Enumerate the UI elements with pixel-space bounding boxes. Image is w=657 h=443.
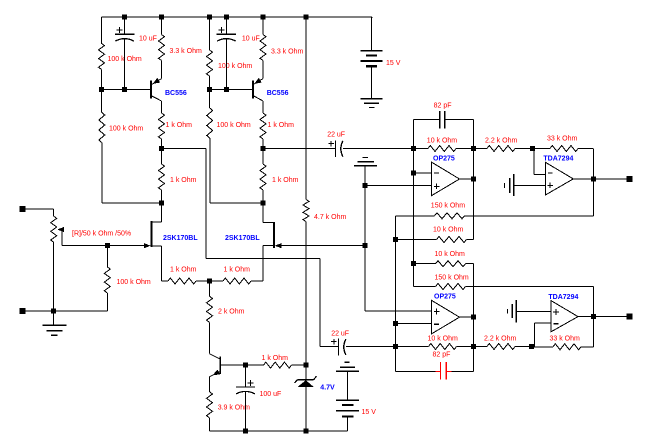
op-amp U4 plus sign (553, 309, 559, 315)
label R16 3.9 k Ohm (218, 405, 250, 412)
svg-text:22 uF: 22 uF (331, 330, 349, 337)
svg-text:82 pF: 82 pF (433, 351, 451, 358)
resistor R28 33k (TDA1 feedback) leads (532, 148, 593, 150)
wire stage1 base row (102, 89, 152, 91)
label R27 2.2 k Ohm (485, 138, 517, 145)
battery V1 15V (361, 51, 383, 67)
svg-text:[R]/50 k Ohm /50%: [R]/50 k Ohm /50% (72, 231, 131, 238)
resistor R5 100k (stage1 base lower) leads (101, 90, 104, 204)
transistor Q3 collector lead (210, 354, 221, 360)
label R17 1 k Ohm (262, 355, 289, 362)
node zener bottom rail junction (303, 429, 308, 434)
resistor R14 1k (J2 source) leads (210, 280, 264, 282)
node U1 minus junction (411, 170, 416, 175)
wire battery V1 bottom lead (371, 66, 373, 98)
transistor J2 2SK170BL channel bar (273, 222, 275, 248)
op-amp U3 plus sign (547, 183, 553, 189)
resistor R17 1k (Q3 base) leads (246, 364, 306, 366)
transistor J1 2SK170BL channel bar (151, 221, 153, 247)
capacitor C5 22uF wire left (320, 346, 339, 348)
wire battery V1 top lead (371, 17, 374, 51)
capacitor C7 82pF loop black leads (396, 370, 474, 372)
svg-text:1 k Ohm: 1 k Ohm (268, 122, 295, 129)
node stage2 feedback junction (261, 201, 266, 206)
wire J2 gate row (281, 245, 365, 247)
node ground rail junction (51, 308, 56, 313)
node stage1 output junction (159, 146, 164, 151)
wire TDA2 minus L (534, 323, 551, 347)
resistor R26 10k (U2 feedback) leads (396, 346, 474, 348)
node Q3 base-C3 junction (243, 363, 248, 368)
wire REF1 down to op-amp row (364, 166, 366, 311)
label R29 2.2 k Ohm (484, 336, 516, 343)
label R14 1 k Ohm (224, 267, 251, 274)
battery V2 15V (336, 400, 359, 416)
reference REF1 minus sign (362, 156, 368, 158)
wire REF2 to battery V2 (346, 371, 348, 400)
capacitor C5 wire right (346, 346, 396, 348)
label R23 10 k Ohm (433, 227, 464, 234)
resistor R29 2.2k leads (473, 346, 531, 348)
op-amp U4 minus sign (554, 323, 559, 325)
label R13 1 k Ohm (170, 267, 197, 274)
node rail C1 junction (122, 15, 127, 20)
resistor R1 100k (stage1 upper bias) leads (101, 17, 103, 90)
transistor J1 gate arrow (144, 243, 151, 248)
resistor R3 1k (stage1 emitter upper) body (159, 113, 165, 139)
resistor R27 2.2k body (487, 146, 515, 152)
label J1 2SK170BL (163, 235, 198, 242)
resistor R14 1k body (223, 278, 251, 284)
label U4 TDA7294 (548, 294, 578, 301)
transistor Q3 base bar (219, 357, 221, 375)
resistor R20 4.7k body (303, 200, 309, 222)
svg-text:1 k Ohm: 1 k Ohm (166, 122, 193, 129)
wire Q3 base row (220, 364, 245, 366)
resistor R7 3.3k (stage2) leads (262, 17, 264, 79)
capacitor C2 10uF plus sign (218, 27, 224, 33)
label C6 82 pF (434, 102, 452, 109)
resistor R23 10k (U2 minus to U1 out) row (396, 239, 474, 241)
node wiper-R12 junction (105, 243, 110, 248)
wire U4 feedback vertical (592, 287, 594, 347)
resistor R9 1k body (260, 164, 266, 190)
label R1 100 k Ohm (108, 56, 142, 63)
label R28 33 k Ohm (547, 135, 578, 142)
wire U4 output (578, 316, 629, 318)
wire rail to R20 4.7k (305, 17, 307, 200)
node TDA2 input junction (529, 344, 534, 349)
resistor R16 3.9k body (207, 392, 213, 418)
label C3 100 uF (260, 391, 282, 398)
node stage1 R1-C1 junction (99, 87, 104, 92)
resistor R2 3.3k body (159, 35, 165, 61)
svg-text:BC556: BC556 (165, 90, 187, 97)
resistor R24 10k (U1 minus to U2 out) row (414, 263, 474, 265)
svg-text:15 V: 15 V (362, 409, 377, 416)
wire U1 output (460, 178, 474, 180)
node REF1 plus-input junction (363, 183, 368, 188)
label C1 10 uF (139, 36, 157, 43)
node 22uF-feedback junction (411, 146, 416, 151)
op-amp U3 minus sign (548, 172, 553, 174)
resistor R28 33k body (550, 146, 578, 152)
op-amp U2 plus sign (434, 309, 440, 315)
resistor R12 100k body (104, 267, 110, 293)
svg-text:10 k Ohm: 10 k Ohm (428, 336, 459, 343)
resistor R4 1k (stage1 emitter lower) leads (161, 149, 163, 204)
resistor R6 100k body (207, 50, 213, 76)
node U2 out bottom junction (471, 344, 476, 349)
op-amp U4 TDA7294 triangle (551, 301, 578, 332)
resistor R23 10k body (437, 237, 467, 243)
wire R5 to stage1 feedback node (102, 202, 162, 204)
label R26 10 k Ohm (428, 336, 459, 343)
svg-text:1 k Ohm: 1 k Ohm (170, 267, 197, 274)
resistor R29 2.2k body (487, 344, 515, 350)
label R8 1 k Ohm (268, 122, 295, 129)
reference REF1 plates (354, 162, 377, 166)
wire input to pot (26, 209, 54, 216)
svg-text:33 k Ohm: 33 k Ohm (547, 135, 578, 142)
label R5 100 k Ohm (109, 126, 143, 133)
transistor Q3 emitter lead+arrow (210, 370, 221, 377)
resistor R20 lead down (305, 222, 307, 366)
wire wiper row to JFET J1 gate (62, 245, 145, 247)
node U1 out top junction (471, 146, 476, 151)
label R21 10 k Ohm (427, 138, 458, 145)
terminal output 1 (626, 176, 632, 182)
capacitor C5 22uF plus sign (331, 339, 337, 345)
label Q1 BC556 (165, 90, 187, 97)
svg-text:100 k Ohm: 100 k Ohm (217, 122, 251, 129)
wire U3 feedback vertical (593, 149, 595, 216)
capacitor C5 22uF symbol (339, 339, 346, 356)
node C5-R26 junction (393, 344, 398, 349)
label R22 150 k Ohm (431, 203, 465, 210)
resistor R10 100k body (207, 108, 213, 138)
node rail R6 junction (207, 15, 212, 20)
node U1 node R24 junction (411, 261, 416, 266)
svg-text:82 pF: 82 pF (434, 102, 452, 109)
wire ground rail (26, 310, 108, 312)
label R15 2 k Ohm (218, 309, 245, 316)
op-amp U3 TDA7294 triangle (545, 162, 573, 195)
resistor R13 1k (J1 source) leads (162, 280, 210, 282)
transistor J2 drain lead (263, 203, 274, 222)
resistor R15 2k body (207, 296, 213, 322)
wire ground stub (53, 311, 55, 326)
label C4 22 uF (327, 132, 345, 139)
capacitor C7 82pF red leads (436, 370, 452, 372)
wire battery V2 bottom lead (346, 416, 348, 431)
svg-text:150 k Ohm: 150 k Ohm (431, 203, 465, 210)
resistor R30 33k body (553, 344, 581, 350)
transistor Q2 collector lead (254, 96, 264, 113)
label R2 3.3 k Ohm (170, 48, 202, 55)
capacitor C3 100uF plus sign (248, 380, 254, 386)
resistor R22 150k body (435, 213, 465, 219)
capacitor C3 leads (245, 365, 247, 431)
capacitor C7 82pF plates (441, 362, 447, 380)
wire vertical x206 (205, 149, 207, 259)
resistor R10 100k (stage2 base lower) leads (209, 90, 211, 203)
transistor Q1 BC556 base bar (150, 81, 152, 99)
capacitor C1 10uF symbol (115, 34, 134, 41)
potentiometer R11 wiper arrow (57, 227, 64, 246)
wire U2 minus stub (396, 322, 432, 324)
node U2 minus junction (393, 321, 398, 326)
label V2 15 V (362, 409, 377, 416)
transistor Q2 emitter lead+arrow (254, 78, 264, 85)
transistor J2 gate arrow (275, 243, 282, 248)
transistor J2 source lead (263, 246, 274, 281)
capacitor C4 wire right (343, 148, 414, 150)
svg-text:2 k Ohm: 2 k Ohm (218, 309, 245, 316)
label R6 100 k Ohm (218, 63, 252, 70)
reference REF2 plates (336, 367, 359, 371)
node rail C2 junction (224, 15, 229, 20)
resistor R6 100k (stage2 upper bias) leads (209, 17, 211, 90)
capacitor C4 22uF plus sign (328, 141, 334, 147)
resistor R8 1k (stage2 emitter upper) body (260, 113, 266, 139)
label R10 100 k Ohm (217, 122, 251, 129)
svg-text:100 k Ohm: 100 k Ohm (117, 279, 151, 286)
node U1 output junction (471, 177, 476, 182)
label U3 TDA7294 (543, 155, 573, 162)
svg-text:2SK170BL: 2SK170BL (163, 235, 198, 242)
resistor R2 3.3k (stage1 collector... emitter load) leads (161, 17, 163, 79)
transistor Q1 emitter lead+arrow (152, 78, 162, 85)
capacitor C6 82pF plates (440, 111, 445, 128)
resistor R25 150k (TDA2 out to U1 minus) row (414, 286, 594, 288)
resistor R15 2k leads (209, 281, 211, 354)
svg-text:2SK170BL: 2SK170BL (225, 235, 260, 242)
label J2 2SK170BL (225, 235, 260, 242)
capacitor C4 22uF wire left (263, 148, 336, 150)
node rail R7 junction (261, 15, 266, 20)
resistor R25 150k body (436, 284, 466, 290)
node source junction (207, 279, 212, 284)
resistor R24 10k body (436, 261, 466, 267)
terminal input top (20, 206, 26, 212)
wire horizontal y259 (206, 258, 320, 260)
resistor R21 10k (U1 feedback) body (428, 146, 456, 152)
transistor Q2 BC556 base bar (252, 81, 254, 99)
resistor R30 33k (TDA2 feedback) leads (532, 346, 594, 348)
svg-text:2.2 k Ohm: 2.2 k Ohm (485, 138, 517, 145)
svg-text:10 uF: 10 uF (139, 36, 157, 43)
resistor R5 100k body (99, 113, 105, 143)
wire U2 output (460, 316, 474, 318)
terminal output 2 (626, 314, 632, 320)
node stage1 C1-base junction (122, 87, 127, 92)
label R9 1 k Ohm (272, 177, 299, 184)
node REF1 gate row junction (363, 243, 368, 248)
label R11 [R]/50 k Ohm /50% (72, 231, 131, 238)
potentiometer R11 body (51, 216, 57, 242)
reference REF2 minus sign (345, 361, 350, 363)
terminal input bottom (20, 308, 26, 314)
diode D1 zener 4.7V cathode bar (295, 376, 317, 383)
diode D1 leads (305, 365, 307, 431)
resistor R9 1k (stage2 emitter lower) leads (262, 149, 264, 204)
svg-text:22 uF: 22 uF (327, 132, 345, 139)
op-amp U2 OP275 triangle (432, 300, 460, 333)
capacitor C6 82pF loop (414, 119, 474, 148)
wire TDA2 plus stub (516, 310, 551, 312)
transistor Q3 emitter vertical (209, 377, 211, 392)
svg-text:3.3 k Ohm: 3.3 k Ohm (271, 49, 303, 56)
wire stage1 out to vertical (162, 148, 207, 150)
svg-text:1 k Ohm: 1 k Ohm (272, 177, 299, 184)
resistor R26 10k body (429, 344, 457, 350)
op-amp U1 OP275 triangle (432, 162, 460, 195)
wire U1 output vertical (472, 149, 474, 240)
svg-text:2.2 k Ohm: 2.2 k Ohm (484, 336, 516, 343)
svg-text:100 k Ohm: 100 k Ohm (109, 126, 143, 133)
wire TDA1 plus stub (514, 184, 546, 186)
node zener top junction (303, 363, 308, 368)
wire vertical x320 (319, 259, 321, 347)
svg-text:150 k Ohm: 150 k Ohm (435, 275, 469, 282)
svg-text:TDA7294: TDA7294 (548, 294, 578, 301)
node U2 output junction (471, 315, 476, 320)
node U3 output junction (591, 176, 596, 181)
node stage2 C2-base junction (224, 87, 229, 92)
transistor Q1 collector lead (152, 96, 162, 113)
label U1 OP275 (433, 155, 455, 162)
label R30 33 k Ohm (550, 336, 581, 343)
resistor R17 1k body (264, 362, 292, 368)
ground GND2 (43, 325, 67, 335)
reference REF3 minus dash (503, 183, 505, 188)
svg-text:10 k Ohm: 10 k Ohm (435, 251, 466, 258)
node C3 bottom rail junction (243, 429, 248, 434)
wire positive supply top rail (102, 16, 373, 18)
resistor R1 100k body (99, 43, 105, 69)
node U2 node R23 junction (393, 237, 398, 242)
node rail R2 junction (159, 15, 164, 20)
label C2 10 uF (242, 36, 260, 43)
svg-text:33 k Ohm: 33 k Ohm (550, 336, 581, 343)
svg-text:3.3 k Ohm: 3.3 k Ohm (170, 48, 202, 55)
label R12 100 k Ohm (117, 279, 151, 286)
op-amp U1 plus sign (434, 184, 440, 190)
op-amp U1 minus sign (434, 172, 439, 174)
svg-text:1 k Ohm: 1 k Ohm (262, 355, 289, 362)
diode D1 zener triangle (298, 380, 314, 387)
node stage1 feedback junction (159, 201, 164, 206)
ground GND1 below V1 (361, 99, 383, 108)
node TDA1 input junction (530, 146, 535, 151)
reference REF4 plates (512, 300, 516, 322)
wire U1 plus input row (365, 185, 431, 187)
resistor R16 lead (209, 418, 211, 431)
svg-text:10 k Ohm: 10 k Ohm (427, 138, 458, 145)
svg-text:100 uF: 100 uF (260, 391, 282, 398)
capacitor C3 100uF symbol (236, 387, 255, 394)
resistor R22 150k (TDA1 out to U2 minus) row (396, 215, 594, 217)
wire TDA1 minus L (534, 149, 546, 175)
svg-text:100 k Ohm: 100 k Ohm (218, 63, 252, 70)
resistor R8 lead (262, 139, 264, 149)
reference REF4 minus dash (506, 309, 508, 313)
label C7 82 pF (433, 351, 451, 358)
label U2 OP275 (434, 293, 456, 300)
capacitor C2 leads (225, 17, 227, 90)
resistor R12 100k (gate to ground) leads (106, 246, 108, 311)
svg-text:4.7 k Ohm: 4.7 k Ohm (314, 214, 346, 221)
svg-text:15 V: 15 V (386, 60, 401, 67)
capacitor C4 22uF symbol (336, 141, 343, 158)
node U4 output junction (591, 314, 596, 319)
wire pot bottom to ground rail (53, 242, 55, 311)
resistor R13 1k body (168, 278, 196, 284)
svg-text:1 k Ohm: 1 k Ohm (170, 177, 197, 184)
capacitor C1 10uF plus sign (117, 27, 123, 33)
wire U2 plus input row (365, 310, 431, 312)
svg-text:10 k Ohm: 10 k Ohm (433, 227, 464, 234)
capacitor C1 leads (124, 17, 126, 90)
wire stage2 base row (210, 89, 254, 91)
node stage2 output junction (261, 146, 266, 151)
label R20 4.7 k Ohm (314, 214, 346, 221)
label R25 150 k Ohm (435, 275, 469, 282)
wire U2 inverting node vertical (395, 216, 397, 371)
transistor J1 drain lead (152, 203, 162, 222)
svg-text:1 k Ohm: 1 k Ohm (224, 267, 251, 274)
label R4 1 k Ohm (170, 177, 197, 184)
svg-text:OP275: OP275 (434, 293, 456, 300)
wire U3 output (573, 178, 629, 180)
resistor R21 leads (414, 148, 474, 150)
svg-text:TDA7294: TDA7294 (543, 155, 573, 162)
label V1 15 V (386, 60, 401, 67)
wire R10 to stage2 feedback node (210, 202, 263, 204)
reference REF3 plates (510, 174, 514, 196)
wire bottom rail (210, 430, 348, 432)
wire U1 inverting node vertical (413, 149, 415, 287)
node stage2 R6-C2 junction (207, 87, 212, 92)
svg-text:BC556: BC556 (267, 90, 289, 97)
op-amp U2 minus sign (434, 323, 439, 325)
label Q2 BC556 (267, 90, 289, 97)
svg-text:10 uF: 10 uF (242, 36, 260, 43)
label R3 1 k Ohm (166, 122, 193, 129)
transistor J1 source lead (152, 246, 162, 281)
resistor R27 2.2k leads (473, 148, 532, 150)
label D1 4.7V (320, 385, 335, 392)
wire U1 minus stub (414, 172, 432, 174)
node rail R20 junction (304, 15, 309, 20)
label R7 3.3 k Ohm (271, 49, 303, 56)
capacitor C2 10uF symbol (217, 34, 236, 41)
svg-text:OP275: OP275 (433, 155, 455, 162)
resistor R7 3.3k body (260, 35, 266, 61)
wire U2 output vertical (472, 264, 474, 372)
svg-text:4.7V: 4.7V (320, 385, 335, 392)
label R24 10 k Ohm (435, 251, 466, 258)
resistor R3 lead (161, 139, 163, 149)
label C5 22 uF (331, 330, 349, 337)
resistor R4 1k body (159, 164, 165, 190)
